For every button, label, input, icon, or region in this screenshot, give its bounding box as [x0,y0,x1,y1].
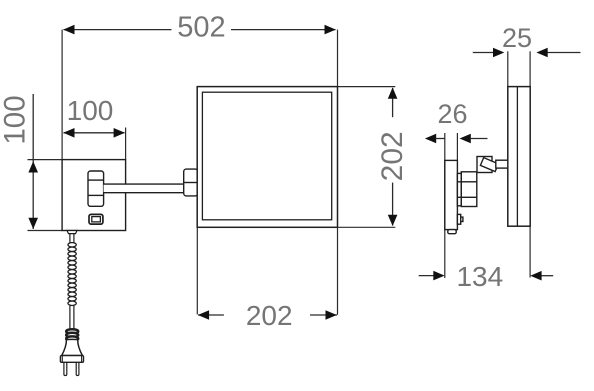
wall plate (front view) [62,160,126,231]
dim 100 vertical dimension line [28,94,38,229]
plug prong right [76,362,79,375]
extension line plate front (26 dim) [456,133,458,160]
mirror glass line (side view) [516,87,518,227]
extension line right of horizontal 100 [125,128,127,160]
svg-text:100: 100 [0,95,32,144]
dim 100 horizontal dimension line [63,128,125,138]
extension line mirror bottom to 202 dim [338,226,396,228]
extension line right of 502 above mirror [337,30,339,87]
dim 202 vertical dimension line right of mirror [388,87,398,226]
power cord lower segment [70,306,74,330]
extension line mirror top to 202 dim [338,86,396,88]
extension line below mirror left [196,227,198,314]
extension line wall side (26/134 dims) [444,133,446,278]
plug strain-relief rings [66,329,78,341]
extension line below mirror profile (134 dim) [529,226,531,277]
arm block at mirror (front view) [184,169,198,196]
swivel arm bar (front view) [104,184,184,193]
plug body [62,339,83,355]
extension line below mirror right [337,227,339,314]
hinge block on wall plate [88,171,104,206]
dim 25 arrows (side view top) [473,48,581,58]
dim 502 top dimension line [63,25,336,35]
hinge strip (side view) [457,173,461,205]
svg-text:100: 100 [67,95,114,126]
dim 502 label [177,12,225,44]
dim 202 vertical label (rotated) [376,131,409,181]
arm bracket on mirror back (side view) [477,157,492,173]
wall plate (side view) [445,160,458,229]
svg-text:202: 202 [376,131,409,181]
power switch on wall plate [89,214,103,224]
power cord upper segment [70,234,74,244]
extension line mirror front (25 dim) [529,51,531,86]
svg-text:202: 202 [246,300,293,331]
extension line mirror back (25 dim) [507,51,509,86]
svg-text:502: 502 [177,12,225,44]
plug base [60,356,83,363]
folded arm knuckle (side view) [480,158,498,172]
dim 100 horizontal label [67,95,114,126]
arm bar to mirror (side view) [496,160,508,168]
dim 202 bottom label [246,300,293,331]
dim 25 label [502,23,532,53]
switch (side view) [457,214,463,224]
mirror outer frame (front view) [197,87,337,228]
extension line left of 502 / wall plate left edge [61,30,63,160]
dim 134 dimension line [419,271,554,281]
svg-text:134: 134 [456,261,503,292]
svg-text:25: 25 [502,23,532,53]
plug prong left [64,362,67,375]
dim 26 label [437,99,467,129]
dim 26 arrows [425,134,488,144]
mirror profile (side view) [508,87,530,227]
extension line bottom of vertical 100 / wall plate bottom [28,230,63,232]
cord grommet under plate [67,231,77,234]
dim 100 vertical label (rotated) [0,95,32,144]
mirror inner glass edge (front view) [202,92,331,220]
dim 202 bottom dimension line [198,310,337,320]
dim 134 label [456,261,503,292]
svg-text:26: 26 [437,99,467,129]
extension line top of vertical 100 / wall plate top [28,159,126,161]
hinge block (side view) [461,172,477,207]
coiled power cord [68,243,76,306]
cord grommet (side view) [448,230,456,234]
